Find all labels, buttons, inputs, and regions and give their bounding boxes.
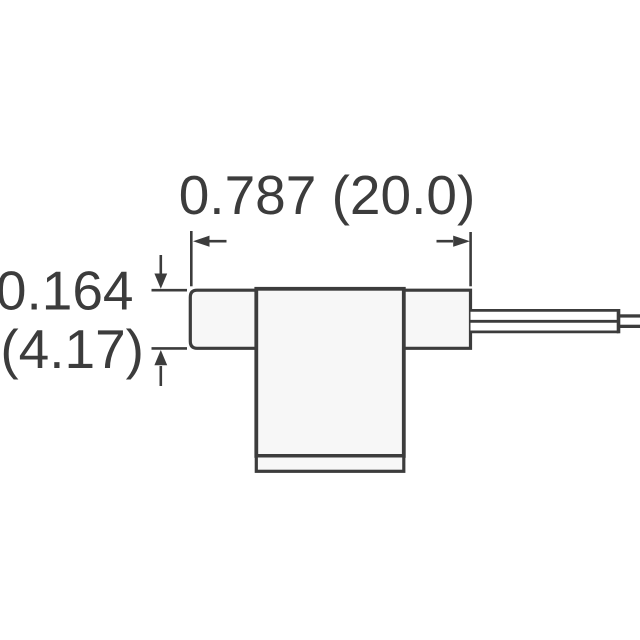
down arrow of height dimension	[154, 255, 167, 289]
bottom strip	[256, 456, 404, 471]
up arrow of height dimension	[154, 350, 167, 386]
svg-text:0.787 (20.0): 0.787 (20.0)	[179, 164, 476, 226]
left arrow of width dimension	[193, 236, 227, 247]
extension line right (width dim)	[469, 232, 472, 286]
right arrow of width dimension	[437, 236, 471, 247]
svg-text:0.164: 0.164	[0, 260, 134, 322]
extension line left (width dim)	[190, 231, 193, 286]
wire pair tube	[471, 309, 619, 333]
bare lead bottom	[619, 325, 640, 328]
leader line top (height dim)	[152, 289, 188, 292]
bare lead top	[619, 314, 640, 317]
flange bar	[190, 290, 470, 348]
component body	[256, 289, 404, 456]
svg-text:(4.17): (4.17)	[0, 318, 144, 380]
leader line bottom (height dim)	[152, 347, 188, 350]
